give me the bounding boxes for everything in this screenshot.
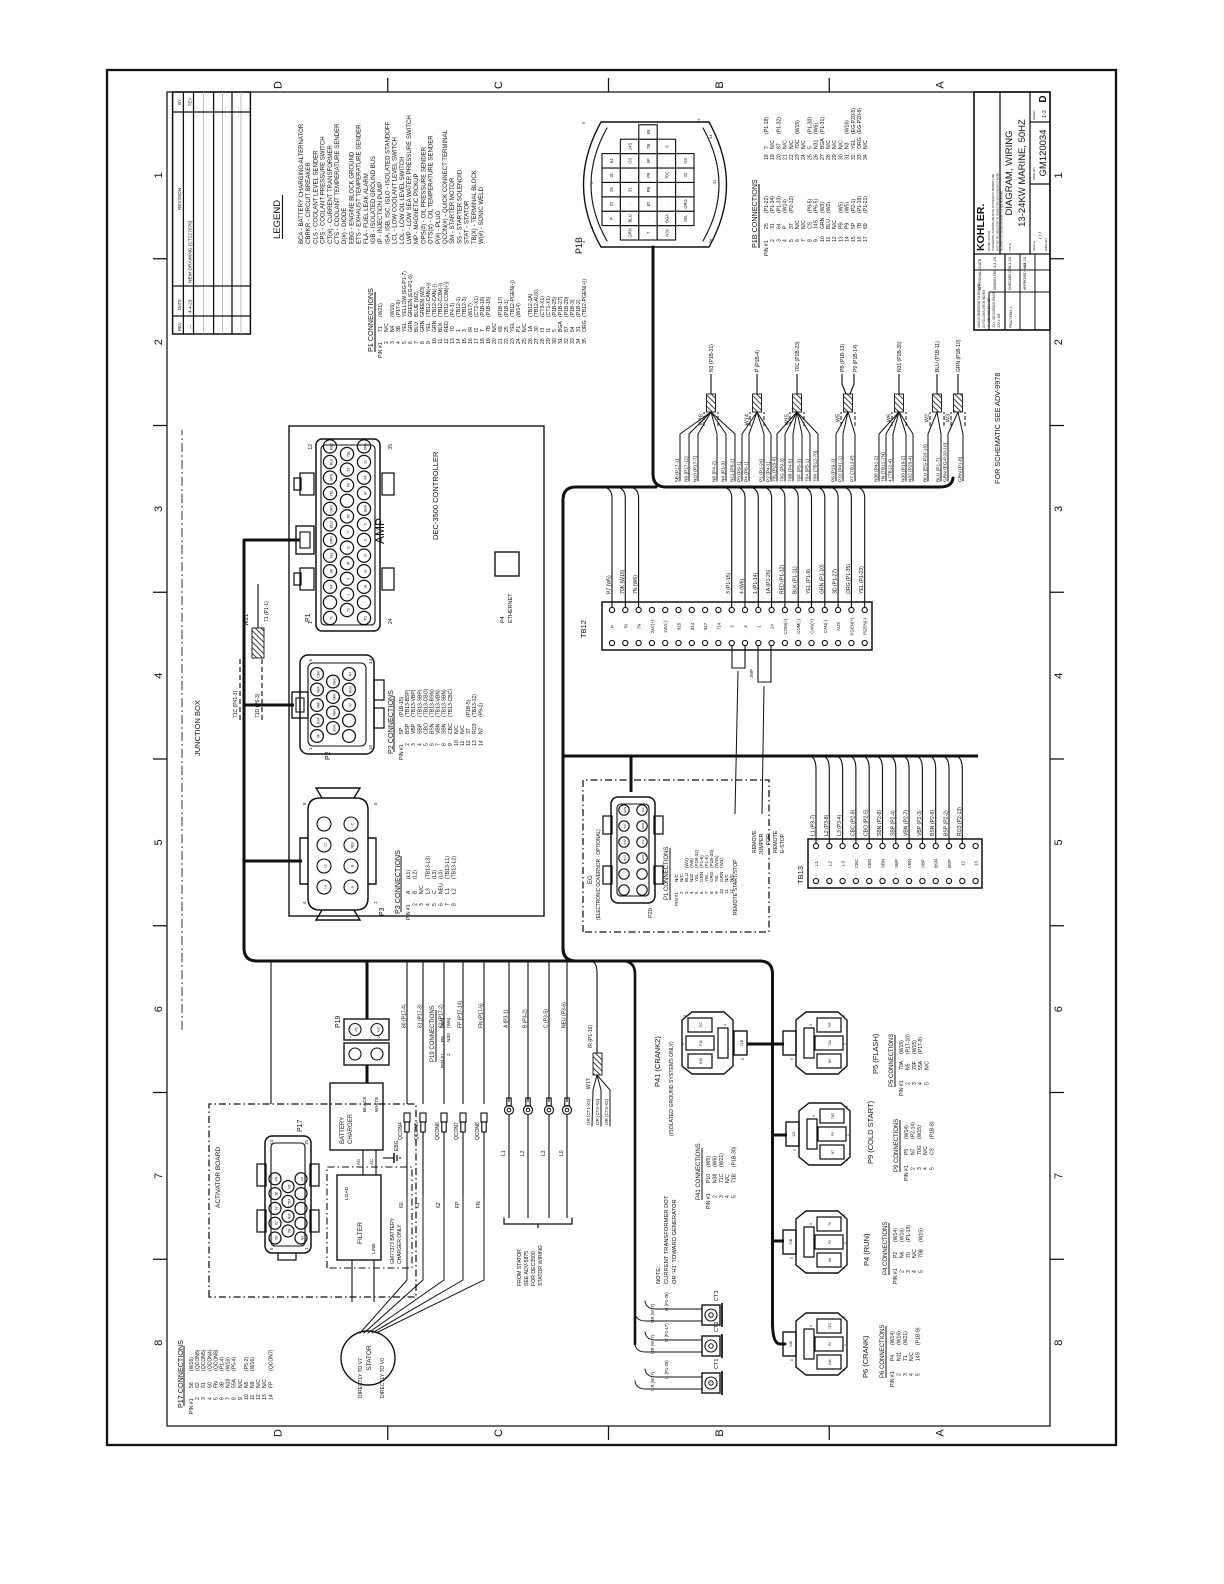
svg-text:REV: REV	[177, 322, 182, 331]
svg-text:(W6): (W6)	[712, 1156, 718, 1167]
svg-text:31: 31	[770, 223, 776, 229]
svg-text:(W21): (W21)	[378, 303, 384, 317]
svg-text:14S: 14S	[789, 1340, 793, 1347]
svg-text:6: 6	[1053, 1006, 1065, 1012]
svg-text:2: 2	[195, 1397, 201, 1400]
svg-text:·: ·	[628, 203, 633, 204]
svg-text:N4 (P1-3): N4 (P1-3)	[720, 461, 726, 482]
svg-text:(W3): (W3)	[820, 202, 826, 213]
svg-text:(W16): (W16)	[845, 120, 851, 134]
svg-text:APPROVALS: APPROVALS	[978, 268, 982, 290]
svg-text:P20: P20	[648, 908, 654, 918]
svg-text:24: 24	[388, 618, 394, 624]
svg-text:12: 12	[466, 740, 472, 746]
svg-text:COM(+): COM(+)	[783, 618, 788, 634]
svg-text:(P1-4): (P1-4)	[220, 1357, 226, 1371]
svg-text:7: 7	[226, 1397, 232, 1400]
svg-text:N/C: N/C	[770, 140, 776, 149]
svg-text:IR (P1-16): IR (P1-16)	[588, 1025, 594, 1048]
svg-text:1: 1	[843, 1043, 847, 1045]
svg-text:BLU: BLU	[623, 855, 627, 860]
svg-text:P10 (P41-1): P10 (P41-1)	[837, 456, 843, 482]
svg-text:(W14): (W14)	[516, 303, 522, 317]
svg-text:PGEN(+): PGEN(+)	[849, 617, 854, 635]
svg-text:2: 2	[377, 1036, 381, 1038]
svg-text:3: 3	[153, 506, 165, 512]
svg-text:3: 3	[419, 903, 425, 906]
svg-text:I1R (CT1-X2): I1R (CT1-X2)	[586, 1098, 591, 1125]
svg-text:ORG: ORG	[857, 137, 863, 149]
svg-text:26: 26	[708, 238, 713, 243]
svg-text:70L: 70L	[641, 839, 645, 844]
svg-text:REVISION: REVISION	[177, 188, 182, 210]
svg-text:QCON6: QCON6	[435, 1122, 441, 1140]
svg-text:4: 4	[1053, 673, 1065, 679]
svg-text:4: 4	[725, 1195, 731, 1198]
svg-text:(EG-P20-8): (EG-P20-8)	[857, 108, 863, 134]
svg-text:SBN: SBN	[333, 693, 337, 700]
svg-text:4: 4	[426, 903, 432, 906]
svg-text:·: ·	[301, 1223, 305, 1224]
svg-text:70A (P5-1): 70A (P5-1)	[804, 459, 810, 482]
svg-text:(P1-19): (P1-19)	[857, 196, 863, 213]
svg-text:P: P	[610, 625, 615, 628]
svg-text:3: 3	[912, 1082, 918, 1085]
svg-text:61: 61	[275, 1206, 279, 1210]
svg-text:70K (W15): 70K (W15)	[620, 569, 626, 594]
svg-text:71D: 71D	[828, 1322, 832, 1329]
svg-text:·: ·	[349, 735, 353, 736]
svg-text:SHEET: SHEET	[1032, 110, 1036, 120]
svg-text:.XX ± .020 SURFACE FINISH: .XX ± .020 SURFACE FINISH	[992, 292, 996, 328]
svg-text:P5 (P9-1): P5 (P9-1)	[736, 461, 742, 482]
svg-text:(W2): (W2)	[826, 202, 832, 213]
svg-text:SEE ADV-5875: SEE ADV-5875	[524, 1251, 530, 1286]
svg-text:BLU (P1-7): BLU (P1-7)	[935, 458, 941, 482]
svg-text:(P1B-9): (P1B-9)	[916, 1327, 922, 1345]
svg-text:55A: 55A	[232, 1378, 238, 1388]
svg-text:N/C: N/C	[460, 725, 466, 734]
svg-text:2: 2	[896, 1373, 902, 1376]
svg-text:CURRENT TRANSFORMER DOT: CURRENT TRANSFORMER DOT	[664, 1195, 670, 1284]
svg-text:P6 CONNECTIONS: P6 CONNECTIONS	[880, 1325, 886, 1378]
svg-text:14S: 14S	[628, 142, 633, 150]
svg-text:4-4-23: 4-4-23	[1008, 257, 1012, 268]
svg-text:P1B CONNECTIONS: P1B CONNECTIONS	[750, 179, 759, 248]
svg-text:4-4-23: 4-4-23	[993, 257, 997, 268]
svg-text:22: 22	[789, 154, 795, 160]
svg-text:7: 7	[1053, 1173, 1065, 1179]
svg-text:N/C: N/C	[725, 1174, 731, 1183]
svg-text:4: 4	[302, 901, 307, 904]
svg-text:RO3 (P2-13): RO3 (P2-13)	[957, 807, 963, 836]
svg-text:ORG: ORG	[641, 823, 645, 829]
svg-text:(P1-22): (P1-22)	[764, 196, 770, 213]
svg-text:N/C: N/C	[832, 220, 838, 229]
svg-text:3: 3	[776, 239, 782, 242]
svg-text:1: 1	[308, 747, 313, 750]
svg-text:·: ·	[641, 889, 645, 890]
svg-text:VBN: VBN	[436, 723, 442, 734]
svg-text:·: ·	[683, 189, 688, 190]
svg-text:·: ·	[623, 873, 627, 874]
svg-text:CHARGER ONLY: CHARGER ONLY	[397, 1224, 403, 1264]
svg-text:STATOR: STATOR	[366, 1345, 373, 1371]
svg-text:69: 69	[863, 223, 869, 229]
svg-text:PIN #1: PIN #1	[399, 744, 405, 760]
svg-text:BLK: BLK	[330, 458, 334, 465]
svg-text:·: ·	[301, 1208, 305, 1209]
svg-text:71C (P41-3): 71C (P41-3)	[233, 690, 239, 718]
svg-text:N9: N9	[250, 1381, 256, 1388]
svg-text:30: 30	[364, 569, 368, 573]
svg-text:14S: 14S	[916, 1351, 922, 1361]
svg-text:6: 6	[153, 1006, 165, 1012]
svg-text:CAN(-): CAN(-)	[823, 619, 828, 633]
svg-text:(TB13-SBN): (TB13-SBN)	[442, 689, 448, 717]
svg-text:N9 (P17-11): N9 (P17-11)	[683, 456, 689, 482]
svg-text:8: 8	[452, 903, 458, 906]
svg-text:5: 5	[1053, 839, 1065, 845]
svg-text:3: 3	[842, 1015, 846, 1017]
svg-text:GM120034: GM120034	[1038, 129, 1049, 176]
svg-text:N/C: N/C	[912, 1249, 918, 1258]
svg-text:ETS - EXHAUST TEMPERATURE SEND: ETS - EXHAUST TEMPERATURE SENDER	[355, 124, 362, 244]
svg-text:5: 5	[919, 1270, 925, 1273]
svg-text:A: A	[935, 1429, 947, 1437]
svg-text:L2: L2	[324, 843, 328, 847]
svg-text:3: 3	[842, 1214, 846, 1216]
svg-text:B: B	[714, 1429, 726, 1436]
svg-text:D: D	[1038, 95, 1049, 102]
svg-text:35: 35	[582, 338, 588, 344]
svg-text:13: 13	[262, 1394, 268, 1400]
svg-text:PIN #1: PIN #1	[904, 1165, 910, 1181]
svg-text:BSP (P2-2): BSP (P2-2)	[944, 810, 950, 836]
svg-text:24: 24	[801, 154, 807, 160]
svg-text:3: 3	[842, 1316, 846, 1318]
svg-text:(W15): (W15)	[919, 1228, 925, 1242]
svg-text:VBN (P2-7): VBN (P2-7)	[904, 810, 910, 836]
svg-text:(P1B-15): (P1B-15)	[399, 696, 405, 717]
svg-text:34: 34	[708, 134, 713, 139]
svg-text:5: 5	[732, 1195, 738, 1198]
svg-text:—: —	[188, 324, 193, 329]
svg-text:P1 CONNECTIONS: P1 CONNECTIONS	[664, 847, 670, 900]
svg-text:(QCON4): (QCON4)	[207, 1349, 213, 1371]
svg-text:I3: I3	[364, 554, 368, 557]
svg-text:(W6): (W6)	[446, 1017, 452, 1028]
svg-text:BCA - BATTERY CHARGING ALTERNA: BCA - BATTERY CHARGING ALTERNATOR	[298, 123, 305, 244]
svg-text:N/C: N/C	[729, 873, 734, 882]
svg-text:(QCON8): (QCON8)	[213, 1349, 219, 1371]
svg-text:70K (TB12-70): 70K (TB12-70)	[812, 450, 818, 482]
svg-text:4: 4	[743, 625, 748, 628]
svg-text:P1B: P1B	[574, 237, 584, 254]
svg-text:2: 2	[413, 903, 419, 906]
svg-text:5: 5	[925, 1082, 931, 1085]
svg-text:B: B	[714, 81, 726, 88]
svg-text:(TB13-L1): (TB13-L1)	[445, 856, 451, 879]
svg-text:·: ·	[301, 1193, 305, 1194]
svg-text:KOHLER.: KOHLER.	[975, 204, 987, 251]
svg-text:JMP: JMP	[749, 669, 754, 678]
svg-text:70L (P20-9): 70L (P20-9)	[771, 456, 777, 482]
svg-text:(P1B-30): (P1B-30)	[732, 1146, 738, 1167]
svg-text:.XXX ± .005: .XXX ± .005	[997, 313, 1001, 328]
svg-text:ISA, ISB, ISC, ISLO - ISOLATED: ISA, ISB, ISC, ISLO - ISOLATED STANDOFF	[384, 122, 391, 244]
svg-text:CPS - COOLANT PRESSURE SWITCH: CPS - COOLANT PRESSURE SWITCH	[319, 136, 326, 244]
svg-text:9: 9	[448, 743, 454, 746]
svg-text:11: 11	[460, 741, 466, 746]
svg-text:VBP: VBP	[317, 701, 321, 708]
svg-text:37: 37	[789, 223, 795, 229]
svg-text:SM - STARTER MOTOR: SM - STARTER MOTOR	[449, 177, 456, 244]
svg-text:70G: 70G	[917, 1145, 923, 1155]
svg-text:GRN: GRN	[623, 807, 627, 813]
svg-text:P4: P4	[500, 616, 506, 623]
svg-text:THIS DRAWING, IN DESIGN AND DE: THIS DRAWING, IN DESIGN AND DETAIL IS KO…	[992, 174, 995, 251]
svg-text:N/C: N/C	[925, 1061, 931, 1070]
svg-text:BSN: BSN	[430, 723, 436, 734]
svg-text:55A: 55A	[918, 1060, 924, 1070]
svg-text:BLU (P1B-11): BLU (P1B-11)	[935, 341, 941, 372]
svg-text:7N: 7N	[637, 624, 642, 630]
svg-text:(W16): (W16)	[189, 1357, 195, 1371]
svg-text:7: 7	[153, 1173, 165, 1179]
svg-text:FROM STATOR: FROM STATOR	[517, 1249, 523, 1286]
svg-text:AUX: AUX	[836, 622, 841, 631]
svg-text:70F (P5-3): 70F (P5-3)	[796, 459, 802, 482]
svg-text:26: 26	[814, 154, 820, 160]
svg-text:25: 25	[609, 187, 614, 192]
svg-text:(P9-2): (P9-2)	[478, 703, 484, 717]
svg-text:8: 8	[232, 1397, 238, 1400]
svg-text:P2: P2	[893, 1252, 899, 1258]
svg-text:31: 31	[696, 118, 701, 123]
svg-text:FRACTIONS ±: FRACTIONS ±	[1009, 307, 1013, 328]
svg-text:8: 8	[1053, 1340, 1065, 1346]
svg-text:CBO: CBO	[867, 858, 872, 868]
svg-text:16: 16	[857, 236, 863, 242]
svg-text:31: 31	[845, 154, 851, 160]
svg-text:DATE: DATE	[978, 258, 982, 268]
svg-text:YEL: YEL	[330, 552, 334, 559]
svg-text:62: 62	[275, 1221, 279, 1225]
svg-text:L3 (P3-4): L3 (P3-4)	[837, 814, 843, 836]
svg-text:BGA: BGA	[820, 138, 826, 149]
svg-text:71: 71	[330, 616, 334, 620]
svg-text:LEGEND: LEGEND	[272, 200, 283, 239]
svg-text:(W5): (W5)	[838, 202, 844, 213]
svg-text:CHECKED DJY: CHECKED DJY	[1008, 265, 1012, 290]
svg-text:REMOTE START/STOP: REMOTE START/STOP	[733, 859, 739, 915]
svg-text:CBC (P2-9): CBC (P2-9)	[850, 809, 856, 836]
svg-text:(P1-18): (P1-18)	[764, 117, 770, 134]
svg-text:4: 4	[809, 1325, 813, 1327]
svg-text:12: 12	[729, 888, 734, 894]
svg-text:N11 (P6-2): N11 (P6-2)	[729, 458, 735, 482]
svg-text:5: 5	[741, 1058, 745, 1060]
svg-text:BY: BY	[177, 99, 182, 105]
svg-text:PIN #1: PIN #1	[440, 1053, 446, 1068]
svg-text:FOR SCHEMATIC SEE ADV-9978: FOR SCHEMATIC SEE ADV-9978	[993, 373, 1002, 484]
svg-text:N/C: N/C	[801, 220, 807, 229]
svg-text:N/C: N/C	[923, 1146, 929, 1155]
svg-text:4: 4	[912, 1270, 918, 1273]
svg-text:70F: 70F	[828, 1022, 832, 1028]
svg-text:70B: 70B	[789, 1238, 793, 1245]
svg-text:N6: N6	[828, 1258, 832, 1262]
svg-text:P9 (P1B-14): P9 (P1B-14)	[853, 344, 859, 372]
svg-text:FOR DEC3500: FOR DEC3500	[531, 1251, 537, 1286]
svg-text:(TB13-12): (TB13-12)	[472, 694, 478, 717]
svg-text:I1 (P1-29): I1 (P1-29)	[664, 1360, 669, 1379]
svg-text:7B: 7B	[646, 144, 651, 149]
svg-text:FP: FP	[455, 1201, 461, 1208]
svg-text:1 (P1-14): 1 (P1-14)	[753, 572, 759, 594]
svg-text:P17: P17	[297, 1119, 304, 1132]
svg-text:1: 1	[348, 1036, 352, 1038]
svg-text:37: 37	[466, 728, 472, 734]
svg-text:GM77373 BATTERY: GM77373 BATTERY	[390, 1217, 396, 1264]
svg-text:W(#) - SONIC WELD: W(#) - SONIC WELD	[478, 187, 485, 244]
svg-text:2: 2	[842, 1369, 846, 1371]
svg-text:9: 9	[238, 1397, 244, 1400]
svg-text:·: ·	[628, 174, 633, 175]
svg-text:LOL - LOW OIL LEVEL SWITCH: LOL - LOW OIL LEVEL SWITCH	[399, 156, 406, 244]
svg-text:BSP: BSP	[947, 859, 952, 868]
svg-text:QCON(#) - QUICK CONNECT TERMIN: QCON(#) - QUICK CONNECT TERMINAL	[442, 130, 449, 244]
svg-text:A: A	[351, 885, 355, 888]
svg-text:3: 3	[906, 1270, 912, 1273]
svg-text:N/C: N/C	[783, 140, 789, 149]
svg-text:N3 (P1B-31): N3 (P1B-31)	[709, 344, 715, 372]
svg-text:N/C: N/C	[789, 140, 795, 149]
svg-text:N31: N31	[814, 139, 820, 149]
svg-text:3: 3	[201, 1397, 207, 1400]
svg-text:N5: N5	[905, 1063, 911, 1070]
svg-text:(TB13-VBP): (TB13-VBP)	[411, 689, 417, 717]
svg-text:7: 7	[445, 903, 451, 906]
svg-text:DATE: DATE	[177, 299, 182, 310]
svg-text:(P5-2): (P5-2)	[244, 1357, 250, 1371]
svg-text:DEC-3500 CONTROLLER: DEC-3500 CONTROLLER	[431, 451, 440, 540]
svg-text:3: 3	[589, 181, 594, 184]
svg-text:DIAGRAM, WIRING: DIAGRAM, WIRING	[1004, 131, 1015, 216]
svg-text:P6 (P19-1): P6 (P19-1)	[830, 458, 836, 482]
svg-text:QCON7: QCON7	[454, 1122, 460, 1140]
svg-text:I3R (CT3-X2): I3R (CT3-X2)	[604, 1098, 609, 1125]
svg-text:N4: N4	[330, 585, 334, 589]
svg-text:70C: 70C	[795, 139, 801, 149]
svg-text:L1: L1	[445, 888, 451, 894]
svg-text:CT3: CT3	[714, 1291, 720, 1301]
svg-text:N31: N31	[664, 228, 669, 236]
svg-text:37: 37	[349, 703, 353, 707]
svg-text:5: 5	[269, 1247, 274, 1250]
svg-text:3: 3	[903, 1373, 909, 1376]
svg-text:70G (P9-3): 70G (P9-3)	[779, 458, 785, 482]
svg-text:A: A	[406, 890, 412, 894]
svg-text:P(#) - PLUG: P(#) - PLUG	[435, 211, 442, 244]
svg-text:3: 3	[719, 1195, 725, 1198]
svg-text:P9 (COLD START): P9 (COLD START)	[866, 1100, 875, 1164]
svg-text:I2R (CT2-X2): I2R (CT2-X2)	[595, 1098, 600, 1125]
svg-text:W17: W17	[586, 1078, 592, 1089]
svg-text:L2: L2	[452, 888, 458, 894]
svg-text:(W15): (W15)	[917, 1125, 923, 1139]
svg-text:GRN: GRN	[820, 217, 826, 229]
svg-text:BLU: BLU	[826, 219, 832, 229]
svg-text:5: 5	[153, 839, 165, 845]
svg-text:CBO: CBO	[317, 670, 321, 678]
svg-text:YEL: YEL	[641, 807, 645, 813]
svg-text:LWP - LOW SEA WATER PRESSURE S: LWP - LOW SEA WATER PRESSURE SWITCH	[406, 115, 413, 244]
svg-text:BSN (P2-6): BSN (P2-6)	[930, 810, 936, 836]
svg-text:947: 947	[703, 622, 708, 630]
svg-text:I1R (W17): I1R (W17)	[650, 1371, 655, 1391]
svg-text:N5: N5	[244, 1381, 250, 1388]
svg-text:B: B	[413, 890, 419, 894]
svg-text:5: 5	[432, 903, 438, 906]
svg-text:(P1B-8): (P1B-8)	[930, 1121, 936, 1139]
svg-text:714: 714	[716, 622, 721, 630]
svg-text:70G: 70G	[831, 1112, 835, 1119]
svg-text:(W14): (W14)	[904, 1125, 910, 1139]
svg-text:AC: AC	[356, 1158, 361, 1165]
svg-text:FILTER: FILTER	[357, 1222, 364, 1244]
svg-text:P9: P9	[646, 172, 651, 178]
svg-text:P4 CONNECTIONS: P4 CONNECTIONS	[883, 1222, 889, 1275]
svg-text:3: 3	[845, 1106, 849, 1108]
svg-text:FP: FP	[301, 1177, 305, 1181]
svg-text:TITLE: TITLE	[1008, 243, 1012, 251]
svg-text:(W5): (W5)	[706, 1156, 712, 1167]
svg-text:69: 69	[347, 483, 351, 487]
svg-text:5P: 5P	[317, 733, 321, 738]
svg-text:1: 1	[843, 1344, 847, 1346]
svg-text:N38: N38	[699, 1058, 703, 1064]
svg-text:(TB13-SBP): (TB13-SBP)	[417, 689, 423, 717]
svg-text:6: 6	[220, 1397, 226, 1400]
svg-text:3B: 3B	[330, 568, 334, 573]
svg-text:4: 4	[812, 1115, 816, 1117]
svg-text:P2: P2	[325, 751, 332, 760]
svg-text:CT1: CT1	[714, 1359, 720, 1369]
svg-text:32: 32	[712, 179, 717, 184]
svg-text:BSN: BSN	[934, 859, 939, 868]
svg-text:N7: N7	[478, 727, 484, 734]
svg-text:ORG: ORG	[683, 199, 688, 209]
svg-text:N31 (P1B-26): N31 (P1B-26)	[897, 341, 903, 372]
svg-text:N/C: N/C	[801, 140, 807, 149]
svg-text:1: 1	[681, 1043, 685, 1045]
svg-text:(TB13-BSP): (TB13-BSP)	[405, 689, 411, 717]
svg-text:CS: CS	[930, 1147, 936, 1155]
svg-text:W6: W6	[887, 414, 893, 422]
svg-text:6: 6	[430, 743, 436, 746]
svg-text:ORG (P1-35): ORG (P1-35)	[846, 564, 852, 594]
svg-text:P5: P5	[904, 1149, 910, 1155]
svg-text:5: 5	[916, 1373, 922, 1376]
svg-text:AC: AC	[369, 1158, 374, 1165]
svg-text:GRN: GRN	[330, 504, 334, 512]
svg-text:14: 14	[268, 1394, 274, 1400]
svg-text:71: 71	[903, 1355, 909, 1361]
svg-text:YEL: YEL	[347, 451, 351, 458]
svg-text:(P1B-5): (P1B-5)	[466, 699, 472, 717]
